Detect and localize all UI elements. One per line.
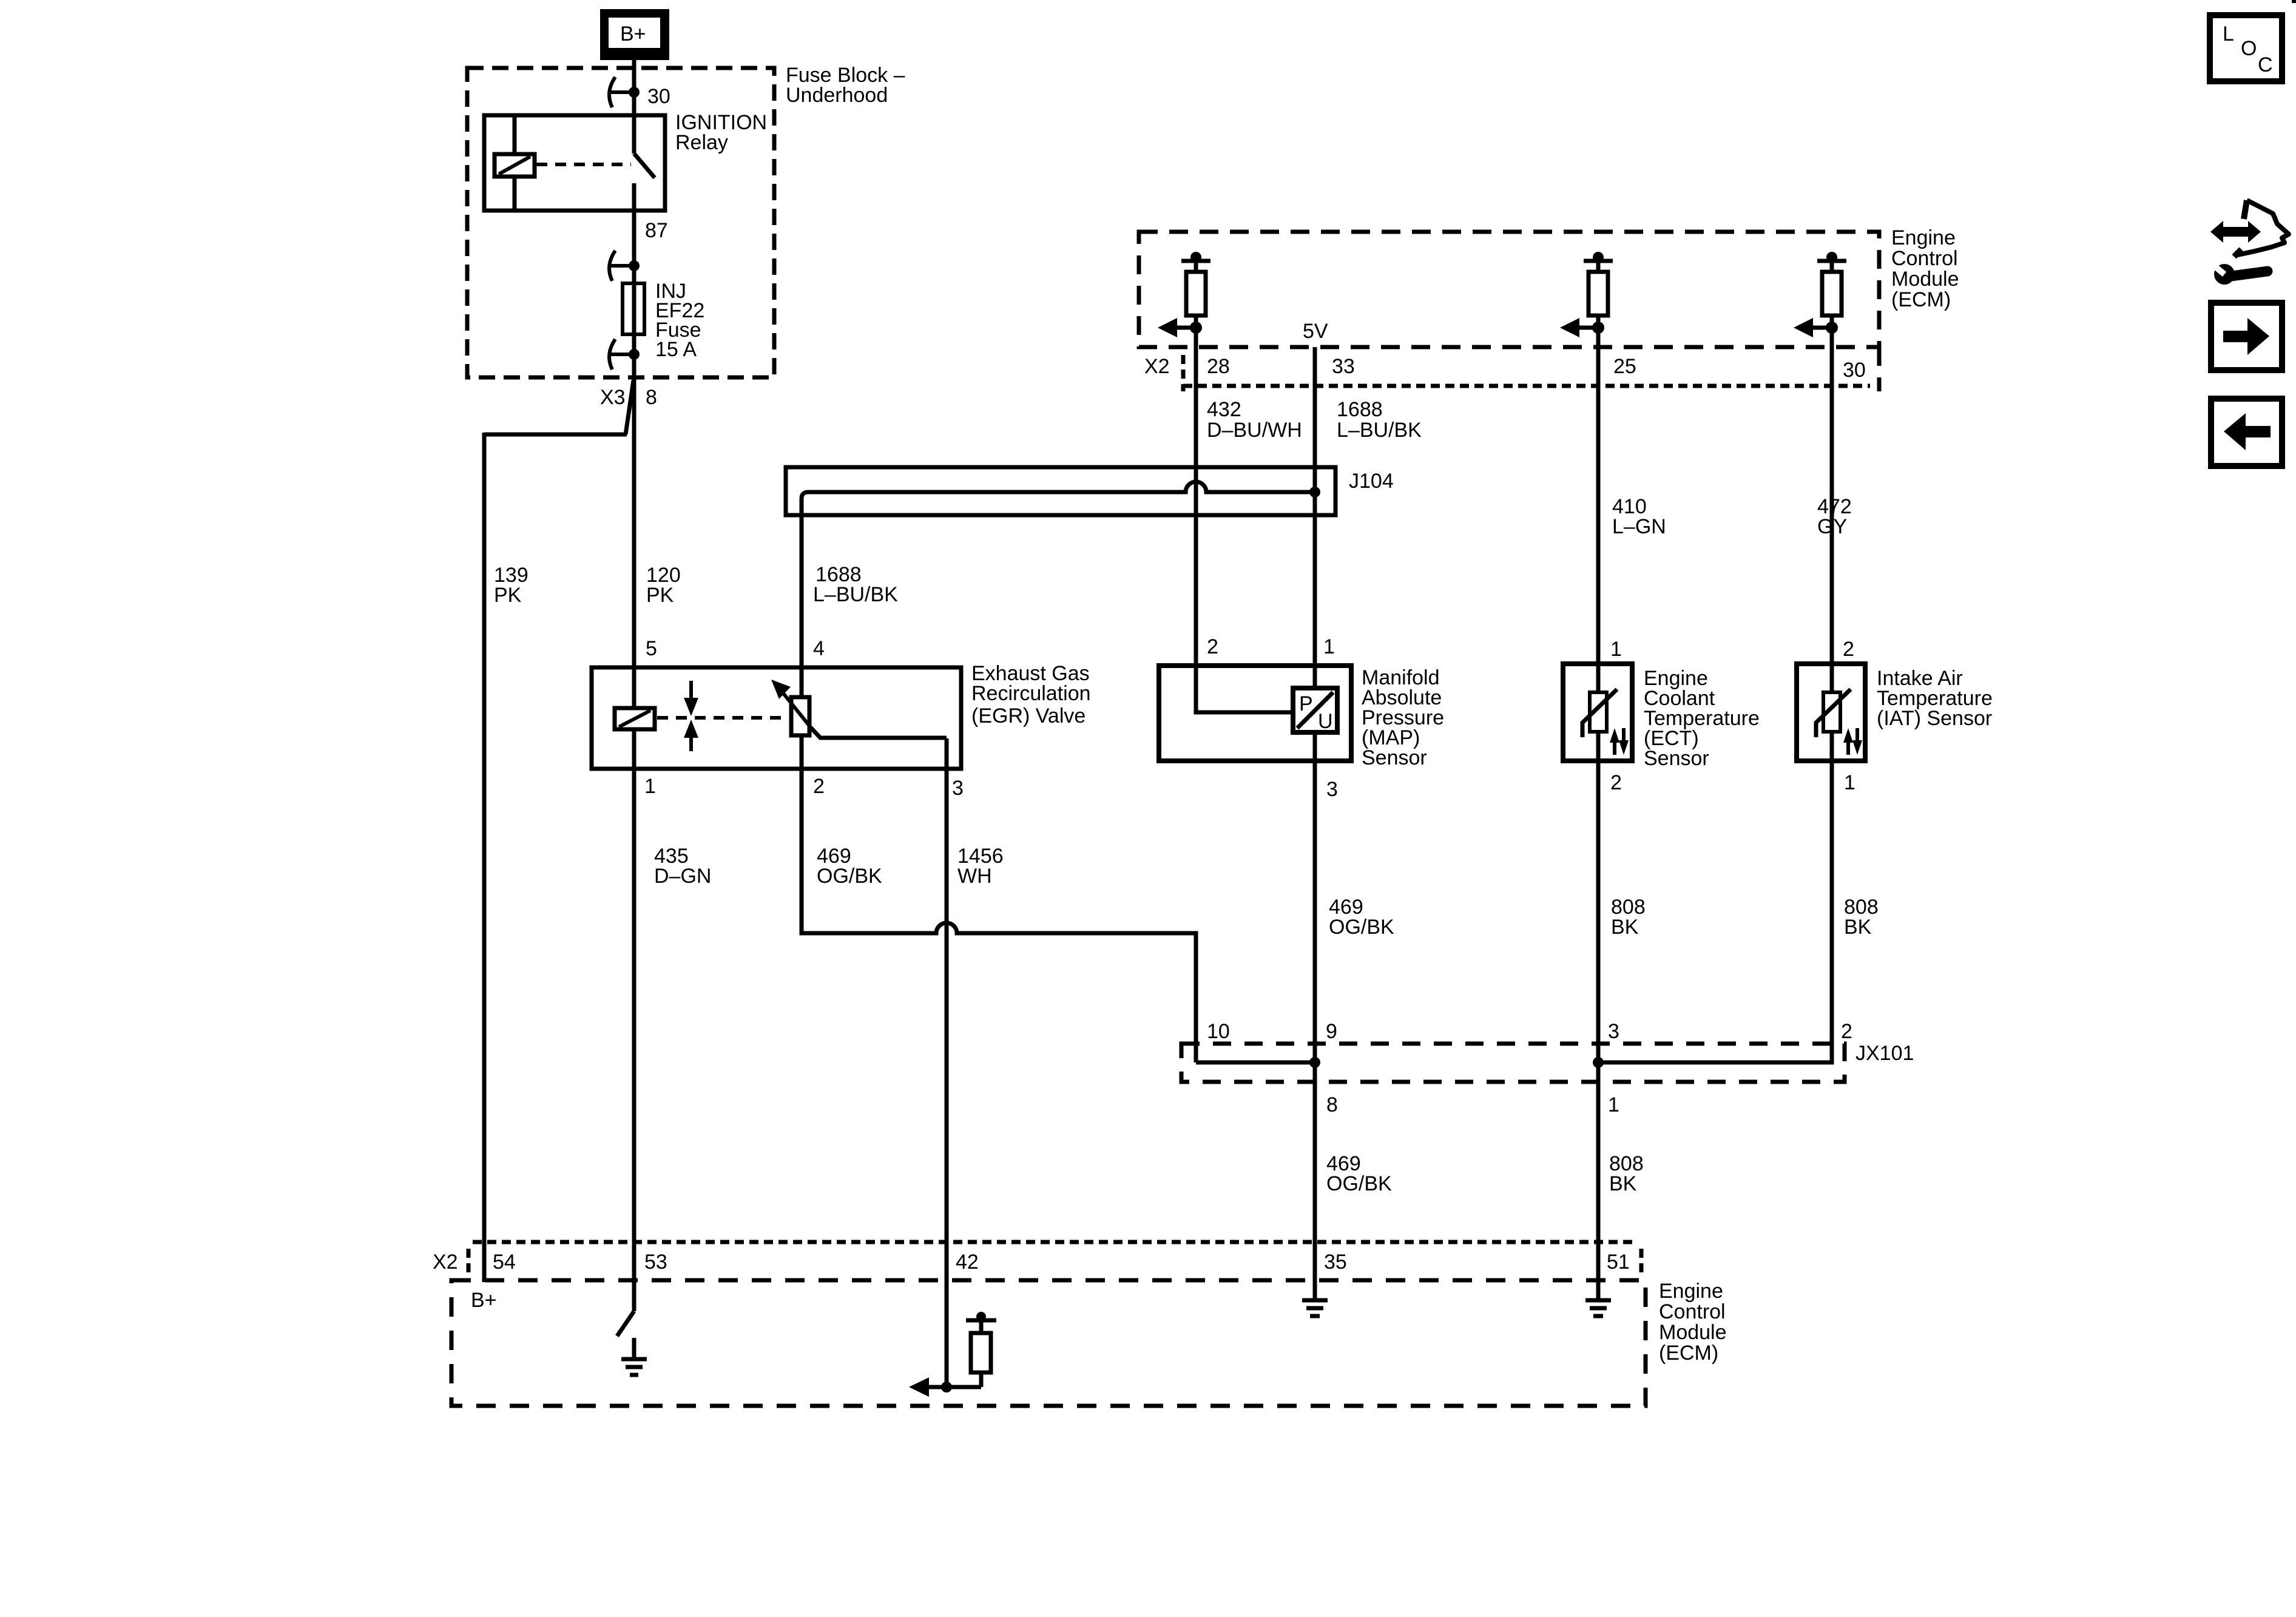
splice pack J104 box: [786, 467, 1335, 515]
connector X3 pin 8 labels: [600, 386, 657, 409]
svg-text:10: 10: [1207, 1020, 1230, 1043]
svg-text:OG/BK: OG/BK: [1326, 1172, 1392, 1195]
relay switch blade 30-87: [634, 154, 655, 178]
wire 472 GY pin 30 to IAT: [1830, 328, 1834, 694]
svg-text:3: 3: [1326, 778, 1338, 801]
svg-text:8: 8: [1326, 1093, 1338, 1116]
EGR actuation dashed link: [657, 716, 789, 720]
svg-text:Relay: Relay: [675, 131, 728, 154]
fuse INJ EF22 15A: [623, 283, 644, 334]
svg-text:O: O: [2241, 37, 2257, 60]
label Manifold Absolute Pressure MAP Sensor: [1362, 666, 1444, 769]
wire 1456 WH EGR pin 3 down to ECM pin 42: [945, 738, 949, 1387]
svg-text:4: 4: [813, 637, 825, 660]
crimp terminal above fuse: [609, 251, 640, 281]
ECM internal arrow at pin 28: [1158, 318, 1202, 337]
svg-text:Engine: Engine: [1659, 1280, 1723, 1303]
svg-text:Control: Control: [1891, 247, 1958, 270]
svg-text:8: 8: [646, 386, 657, 409]
wire 410 L-GN pin 25 to ECT: [1596, 328, 1601, 694]
LOC icon box: [2210, 15, 2282, 81]
MAP internal wire pin 2 to transducer: [1196, 666, 1293, 712]
label 469 OG/BK left: [817, 845, 882, 888]
svg-text:BK: BK: [1611, 916, 1639, 939]
wire 808 BK ECT pin 2 to JX101 pin 3: [1596, 761, 1601, 1062]
label 1456 WH: [957, 845, 1004, 888]
ignition relay box: [484, 115, 665, 211]
svg-text:51: 51: [1607, 1251, 1630, 1274]
wire 432 D-BU/WH pin 28 to MAP: [1194, 328, 1198, 666]
svg-text:Module: Module: [1659, 1321, 1727, 1344]
EGR wiper output to pin 3: [811, 727, 947, 738]
label 139 PK: [494, 564, 528, 607]
svg-text:1: 1: [1608, 1093, 1619, 1116]
MAP internal wire transducer to pin 3: [1313, 732, 1317, 761]
wire 1688 splice run inside J104 with hop over 432: [802, 482, 1315, 697]
label 410 L-GN: [1612, 495, 1666, 538]
svg-text:JX101: JX101: [1855, 1042, 1914, 1065]
svg-text:Engine: Engine: [1891, 226, 1956, 249]
JX101 bus left segment: [1196, 1061, 1315, 1065]
svg-text:35: 35: [1324, 1251, 1347, 1274]
ECM internal switch at pin 53: [617, 1311, 634, 1336]
svg-text:1: 1: [1610, 638, 1622, 661]
svg-text:Underhood: Underhood: [786, 84, 888, 107]
ground at ECM pin 51: [1585, 1300, 1611, 1316]
back arrow icon box: [2211, 399, 2282, 466]
junction dot JX101 right: [1593, 1057, 1604, 1068]
ECM internal arrow at pin 25: [1560, 318, 1604, 337]
svg-text:2: 2: [813, 775, 825, 798]
ECT sensor box: [1563, 664, 1632, 761]
page corner mark: [2292, 0, 2296, 3]
svg-text:Sensor: Sensor: [1644, 747, 1709, 770]
ECT thermistor: [1582, 664, 1617, 761]
fuse block underhood dashed box: [467, 68, 774, 377]
crimp terminal below fuse: [609, 339, 640, 370]
wire 808 BK IAT pin 1 to JX101 pin 2: [1598, 761, 1832, 1062]
svg-text:L–GN: L–GN: [1612, 515, 1666, 538]
svg-text:GY: GY: [1817, 515, 1847, 538]
svg-text:30: 30: [1843, 359, 1866, 382]
relay coil K (ignition relay): [495, 115, 535, 211]
wire relay pin 87 to fuse: [632, 183, 636, 283]
IAT sensor box: [1797, 664, 1865, 761]
svg-text:(ECM): (ECM): [1659, 1342, 1718, 1365]
label 472 GY: [1817, 495, 1852, 538]
svg-text:U: U: [1318, 710, 1333, 733]
EGR solenoid coil: [615, 708, 655, 729]
svg-text:X2: X2: [433, 1251, 458, 1274]
ECM internal pull-up resistor R3 for pin 30: [1817, 252, 1846, 328]
connector X2 row top ECM: [1183, 355, 1870, 391]
svg-text:2: 2: [1610, 771, 1622, 794]
label 1688 L-BU/BK right: [1337, 398, 1422, 442]
svg-text:5: 5: [646, 637, 657, 660]
wire 469 OG/BK EGR pin 2 down and across with hop over 1456: [802, 735, 1196, 1062]
label 120 PK: [646, 564, 681, 607]
schematic navigation icon with double arrow and wrench: [2210, 200, 2289, 285]
svg-text:54: 54: [493, 1251, 516, 1274]
wire 469 OG/BK JX101 pin 8 to ECM pin 35 ground: [1313, 1062, 1317, 1300]
wire B+ to relay pin 30 (battery feed): [632, 56, 636, 154]
label 808 BK lower: [1609, 1152, 1644, 1195]
svg-text:OG/BK: OG/BK: [817, 865, 882, 888]
label Engine Coolant Temperature ECT Sensor: [1644, 667, 1760, 770]
wire 469 OG/BK MAP pin 3 to JX101 pin 9: [1313, 761, 1317, 1062]
label Engine Control Module ECM bottom: [1659, 1280, 1727, 1365]
svg-text:53: 53: [644, 1251, 667, 1274]
svg-text:42: 42: [956, 1251, 979, 1274]
label Engine Control Module ECM top: [1891, 226, 1959, 311]
svg-text:15 A: 15 A: [655, 338, 697, 361]
svg-text:2: 2: [1841, 1020, 1852, 1043]
label IGNITION Relay: [675, 111, 767, 154]
svg-text:D–GN: D–GN: [654, 865, 711, 888]
svg-text:Sensor: Sensor: [1362, 746, 1427, 769]
engine control module bottom dashed box: [451, 1280, 1646, 1406]
wire 1688 L-BU/BK 5V feed pin 33 to MAP: [1313, 347, 1317, 688]
label INJ EF22 Fuse 15 A: [655, 280, 704, 361]
MAP sensor box: [1159, 666, 1351, 761]
svg-text:B+: B+: [620, 22, 646, 46]
crimp terminal at pin 30: [609, 77, 640, 107]
ECM internal circuit at pin 42: [909, 1312, 996, 1397]
svg-text:(ECM): (ECM): [1891, 288, 1951, 311]
wire 139 PK branch diagonal: [626, 380, 633, 434]
svg-text:1: 1: [1323, 635, 1335, 658]
label 432 D-BU/WH: [1207, 398, 1302, 442]
ECT bidirectional arrows: [1610, 728, 1629, 755]
relay actuation dashed link: [536, 163, 631, 166]
svg-text:1688: 1688: [1337, 398, 1383, 421]
svg-text:Control: Control: [1659, 1300, 1726, 1323]
label 1688 L-BU/BK left: [813, 563, 898, 606]
svg-text:BK: BK: [1844, 916, 1872, 939]
IAT bidirectional arrows: [1843, 728, 1862, 755]
svg-text:30: 30: [647, 85, 670, 108]
svg-text:C: C: [2258, 53, 2273, 76]
wire 435 D-GN EGR pin 1 down: [632, 729, 636, 1311]
ECM internal pull-up resistor R1 for pin 28: [1181, 252, 1210, 328]
forward arrow icon box: [2211, 303, 2282, 370]
ECM internal pull-up resistor R2 for pin 25: [1584, 252, 1613, 328]
svg-text:BK: BK: [1609, 1172, 1637, 1195]
IAT thermistor: [1816, 664, 1851, 761]
MAP transducer P/U box U1: [1293, 688, 1337, 733]
junction dot J104 splice to 5V wire: [1309, 487, 1320, 498]
svg-text:X2: X2: [1144, 355, 1170, 378]
svg-text:1: 1: [644, 775, 656, 798]
splice connector JX101 dashed box: [1181, 1044, 1845, 1082]
wire 139 PK horizontal run: [484, 433, 627, 437]
svg-text:OG/BK: OG/BK: [1329, 916, 1394, 939]
B+ battery feed terminal: [600, 9, 669, 60]
label 435 D-GN: [654, 845, 711, 888]
svg-text:B+: B+: [471, 1289, 497, 1312]
ground symbol inside ECM below switch: [621, 1338, 647, 1375]
wire 139 PK left drop to ECM pin 54: [482, 433, 487, 1282]
wire fuse to X3 pin 8: [632, 334, 636, 377]
svg-text:L: L: [2223, 22, 2234, 46]
svg-text:3: 3: [1608, 1020, 1619, 1043]
svg-text:28: 28: [1207, 355, 1230, 378]
EGR valve box: [592, 667, 961, 769]
svg-text:L–BU/BK: L–BU/BK: [813, 583, 898, 606]
label 469 OG/BK MAP: [1329, 896, 1394, 939]
svg-text:L–BU/BK: L–BU/BK: [1337, 419, 1422, 442]
svg-text:PK: PK: [494, 584, 522, 607]
svg-text:Recirculation: Recirculation: [971, 682, 1091, 705]
label Fuse Block Underhood: [786, 64, 905, 107]
connector X2 row bottom ECM: [468, 1242, 1641, 1274]
svg-text:25: 25: [1613, 355, 1636, 378]
svg-text:(IAT) Sensor: (IAT) Sensor: [1877, 707, 1992, 730]
svg-text:D–BU/WH: D–BU/WH: [1207, 419, 1302, 442]
junction dot JX101 left: [1309, 1057, 1320, 1068]
svg-text:PK: PK: [646, 584, 674, 607]
label 469 OG/BK lower: [1326, 1152, 1392, 1195]
svg-text:(EGR) Valve: (EGR) Valve: [971, 704, 1086, 727]
svg-text:5V: 5V: [1303, 320, 1328, 343]
label 808 BK IAT: [1844, 896, 1879, 939]
wire 120 PK trunk X3-8 down to EGR pin 5: [632, 377, 636, 708]
svg-text:P: P: [1299, 692, 1313, 715]
svg-text:X3: X3: [600, 386, 626, 409]
svg-text:432: 432: [1207, 398, 1241, 421]
svg-text:9: 9: [1326, 1020, 1337, 1043]
svg-text:33: 33: [1332, 355, 1355, 378]
wire 808 BK JX101 pin 1 to ECM pin 51 ground: [1596, 1062, 1601, 1300]
svg-text:3: 3: [952, 777, 964, 800]
svg-text:2: 2: [1843, 638, 1854, 661]
label Intake Air Temperature IAT Sensor: [1877, 667, 1993, 730]
ground at ECM pin 35: [1302, 1300, 1328, 1316]
label 808 BK ECT: [1611, 896, 1646, 939]
svg-text:1: 1: [1844, 771, 1855, 794]
svg-text:J104: J104: [1349, 470, 1394, 493]
ECM internal arrow at pin 30: [1794, 318, 1838, 337]
EGR valve pintle arrows: [684, 681, 698, 751]
label Exhaust Gas Recirculation EGR Valve: [971, 662, 1091, 727]
svg-text:WH: WH: [957, 865, 992, 888]
svg-text:2: 2: [1207, 635, 1218, 658]
svg-text:87: 87: [645, 219, 668, 242]
svg-text:Module: Module: [1891, 268, 1959, 291]
engine control module top dashed box: [1139, 232, 1879, 391]
EGR position sensor potentiometer: [771, 680, 811, 735]
